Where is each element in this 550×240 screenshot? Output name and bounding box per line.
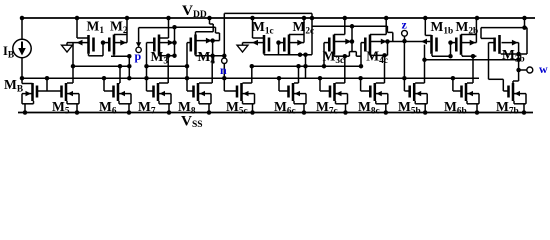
svg-text:n: n bbox=[220, 63, 227, 77]
svg-text:w: w bbox=[539, 62, 548, 76]
svg-text:p: p bbox=[135, 49, 142, 63]
svg-text:z: z bbox=[402, 18, 408, 32]
